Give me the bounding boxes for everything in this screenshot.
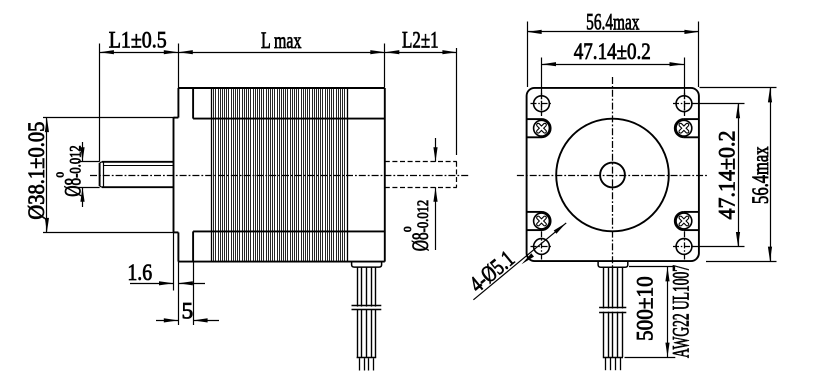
- mounting hole TR dia 5.1: [673, 93, 695, 115]
- dimension 56.4max top: [527, 10, 699, 87]
- svg-text:L1±0.5: L1±0.5: [109, 28, 167, 54]
- svg-text:56.4max: 56.4max: [586, 10, 639, 36]
- svg-text:Ø8: Ø8: [61, 178, 87, 197]
- dimension 47.14±0.2 top: [542, 39, 685, 116]
- shaft hole circle: [600, 163, 625, 188]
- svg-text:500±10: 500±10: [633, 276, 659, 341]
- label AWG22 UL1007: [669, 265, 695, 358]
- wire tie band (front view): [599, 308, 626, 313]
- svg-text:56.4max: 56.4max: [748, 146, 774, 204]
- shaft dia 8 extension lines: [78, 162, 100, 188]
- dimension Ø8 rear shaft: [402, 138, 438, 251]
- wire exit boss (side view): [352, 261, 382, 267]
- lead wires (side view): [358, 267, 376, 357]
- wire ends (side view): [357, 358, 377, 371]
- svg-text:-0.012: -0.012: [68, 145, 85, 178]
- body corner chamfer lines: [193, 119, 385, 232]
- wire tie band (side view): [352, 306, 382, 310]
- cover screw TR: [676, 120, 692, 136]
- mounting hole TL dia 5.1: [531, 93, 553, 115]
- dimension 1.6 boss protrusion: [127, 232, 205, 325]
- vertical centerline (front view): [612, 77, 614, 267]
- mounting hole BL dia 5.1: [531, 231, 553, 260]
- svg-text:47.14±0.2: 47.14±0.2: [574, 39, 651, 65]
- dimension 500±10 wire length: [625, 267, 676, 358]
- dimension 56.4max right: [700, 88, 777, 262]
- svg-text:Ø38.1±0.05: Ø38.1±0.05: [24, 122, 50, 220]
- motor body outline (side view): [178, 88, 384, 262]
- svg-text:AWG22 UL1007: AWG22 UL1007: [669, 265, 695, 358]
- screw recess BL: [527, 212, 551, 230]
- svg-text:0: 0: [55, 172, 67, 178]
- front shaft dia 8: [100, 162, 174, 187]
- shaft flat line: [103, 165, 174, 167]
- dimension L2±1: [385, 27, 457, 155]
- cover screw BL: [534, 213, 550, 229]
- pilot boss circle (front view): [556, 119, 669, 232]
- dimension L max: [178, 28, 384, 88]
- svg-text:0: 0: [402, 226, 414, 232]
- flange rear face edges: [192, 88, 194, 262]
- horizontal centerline (front view): [517, 175, 708, 177]
- dimension L1±0.5: [99, 28, 178, 162]
- mounting hole BR dia 5.1: [673, 231, 695, 260]
- dimension Ø38.1±0.05: [24, 118, 175, 233]
- dimension Ø8 front shaft: [55, 142, 87, 207]
- svg-text:Ø8: Ø8: [408, 232, 434, 251]
- svg-text:5: 5: [181, 299, 193, 325]
- centerline (side view): [90, 175, 470, 177]
- svg-text:-0.012: -0.012: [415, 200, 432, 233]
- svg-text:1.6: 1.6: [127, 260, 152, 286]
- svg-text:L max: L max: [261, 28, 302, 54]
- screw recess BR: [675, 212, 699, 230]
- svg-text:L2±1: L2±1: [402, 27, 439, 53]
- svg-text:47.14±0.2: 47.14±0.2: [715, 131, 741, 220]
- screw recess TL: [527, 119, 551, 137]
- screw recess TR: [675, 119, 699, 137]
- leader 4-Ø5.1: [465, 223, 567, 300]
- lamination stack hatching: [212, 88, 348, 262]
- dimension 5 flange thickness: [156, 262, 219, 325]
- wire exit boss (front view): [598, 261, 628, 267]
- cover screw BR: [676, 213, 692, 229]
- dimension 47.14±0.2 right: [692, 104, 745, 247]
- flange square outline (front view): [527, 88, 699, 261]
- wire ends (front view): [603, 358, 623, 371]
- rear shaft hidden lines: [385, 162, 457, 188]
- lead wires (front view): [604, 267, 623, 357]
- pilot boss dia 38.1: [174, 118, 179, 233]
- cover screw TL: [534, 120, 550, 136]
